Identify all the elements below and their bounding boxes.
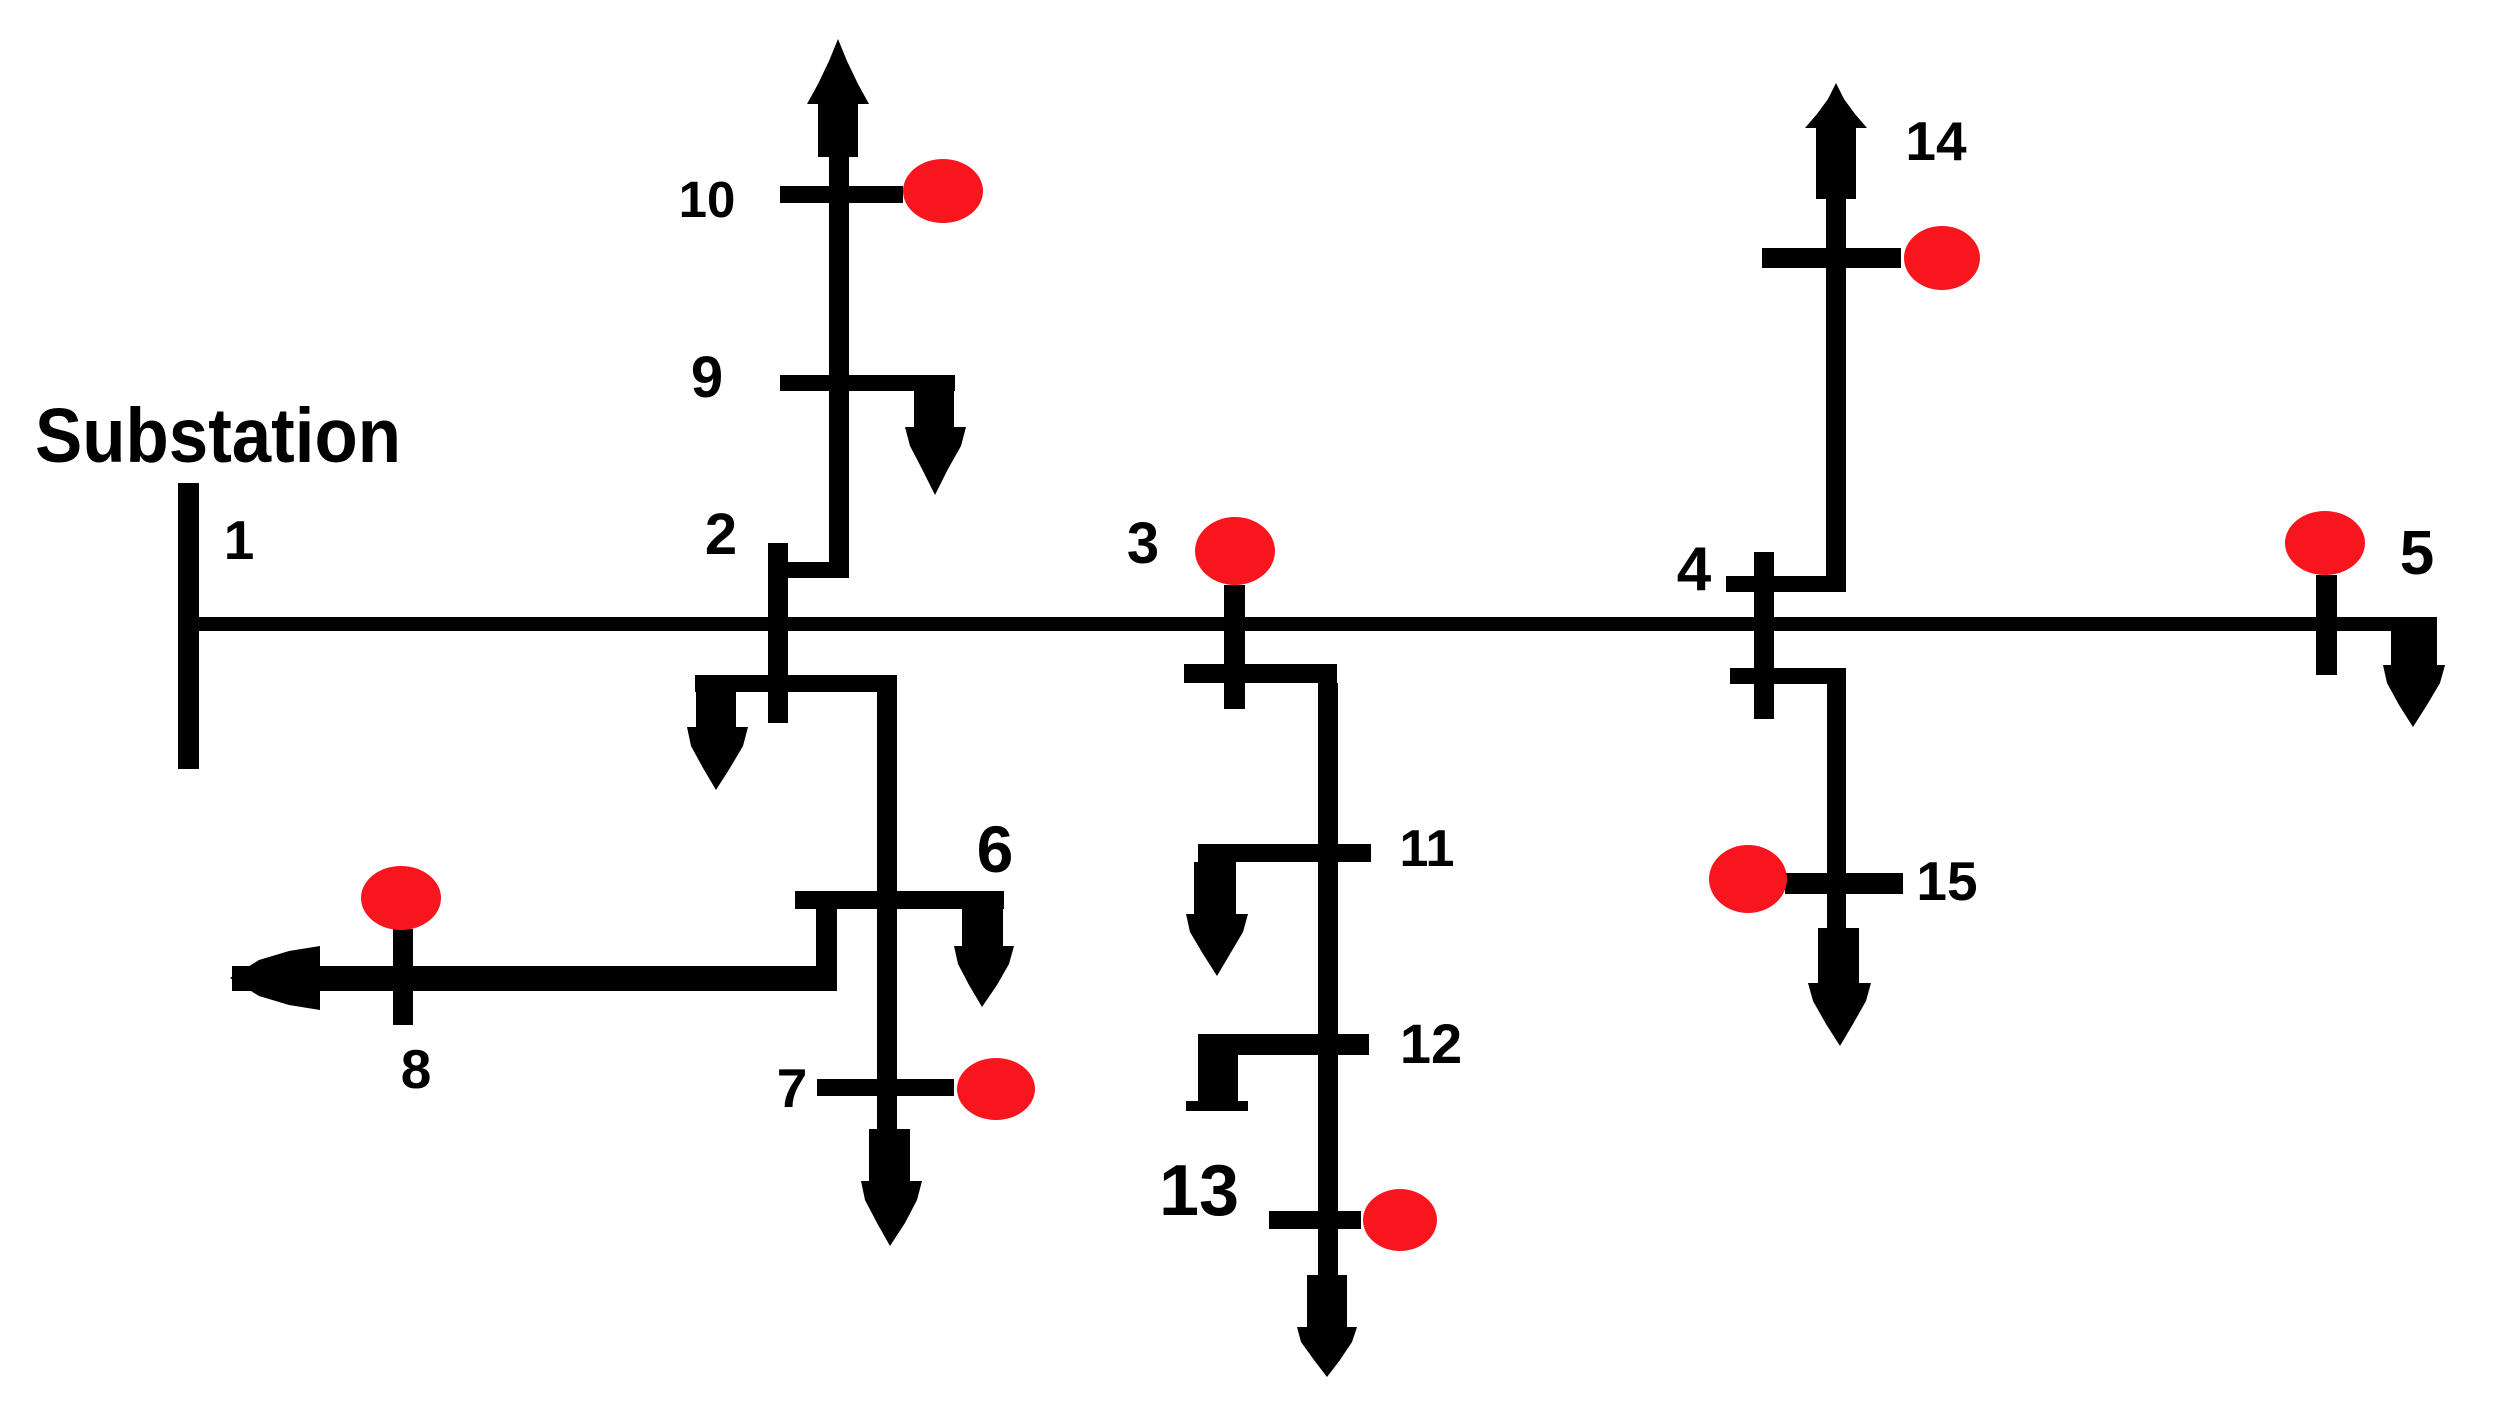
svg-text:9: 9 [691,345,723,410]
DG marker red dot at bus 5 [2285,511,2365,575]
svg-text:6: 6 [977,812,1014,886]
wire vertical branch 3-11 [1318,683,1338,844]
DG marker red dot at bus 15 [1709,845,1787,913]
DG marker red dot at bus 10 [903,159,983,223]
bus 1 bar [178,483,199,769]
svg-text:11: 11 [1400,820,1455,878]
bus 9 bar [780,375,955,391]
svg-text:2: 2 [705,502,737,567]
bus 4 tick [1754,552,1774,719]
svg-text:4: 4 [1677,535,1712,604]
bus 12 bar [1198,1034,1369,1055]
bus 15 bar [1785,873,1903,894]
svg-text:3: 3 [1127,511,1159,576]
DG marker red dot at bus 13 [1363,1189,1437,1251]
bus 8 tick [393,929,413,1025]
load arrow down below bus 7 [861,1129,922,1246]
bus 13 bar [1269,1211,1361,1229]
svg-text:14: 14 [1905,110,1967,172]
bus 2 lower takeoff bar [695,675,897,692]
DG marker red dot at bus 14 [1904,226,1980,290]
wire vertical branch 2-6 [877,692,897,893]
wire jog bus2 to branch-9 [768,562,849,578]
load arrow down at end of main feeder [2383,631,2445,727]
arrow head left at end of branch 8 [230,946,320,1010]
load arrow up at top of branch 14 [1805,83,1867,199]
wire vertical below bus 13 [1318,1229,1338,1275]
load arrow down below bus 15 [1808,928,1871,1046]
DG marker red dot at bus 7 [957,1058,1035,1120]
load arrow down at bus 9 [905,391,966,495]
wire main feeder bus1 to bus5 [188,617,2437,631]
bus 4 lower takeoff bar [1730,668,1846,684]
bus 7 bar [817,1079,954,1096]
svg-text:1: 1 [224,509,255,571]
wire jog bus4 to branch-14 [1726,576,1846,592]
wire vertical branch 6-7 [877,909,897,1129]
bus 11 bar [1198,844,1371,862]
bus 2 tick [768,543,788,723]
DG marker red dot at bus 8 [361,866,441,930]
wire vertical bus6 to branch-8 [816,909,837,985]
bus 5 tick [2316,575,2337,675]
load arrow down at bus 11 [1186,862,1248,976]
load arrow down at bus 6 [954,909,1014,1007]
wire vertical branch 4-15 [1827,684,1846,873]
wire vertical branch 12-13 [1318,1055,1338,1211]
svg-text:Substation: Substation [35,393,401,479]
wire horizontal branch to bus 8 [232,966,837,991]
svg-text:7: 7 [777,1057,808,1119]
wire vertical below bus 15 [1827,894,1846,928]
DG marker red dot at bus 3 [1195,517,1275,585]
svg-text:15: 15 [1916,850,1977,912]
bus 10 bar [780,186,903,203]
wire vertical branch 11-12 [1318,862,1338,1034]
svg-text:5: 5 [2400,519,2434,588]
load arrow down below bus 13 [1297,1275,1357,1377]
svg-text:12: 12 [1400,1012,1462,1075]
bus 3 lower takeoff bar [1184,664,1337,683]
wire vertical branch 2-9-10 [829,155,849,578]
svg-text:13: 13 [1159,1151,1239,1231]
load arrow down at bus 2 [687,692,748,790]
bus 14 bar [1762,248,1901,268]
svg-text:8: 8 [401,1038,432,1100]
svg-text:10: 10 [679,171,736,228]
load block at bus 12 [1186,1055,1248,1111]
wire vertical branch 4-14 [1826,199,1846,576]
bus 6 bar [795,891,1004,909]
load arrow up at top of branch 10 [807,39,869,157]
bus 3 tick [1224,585,1245,709]
